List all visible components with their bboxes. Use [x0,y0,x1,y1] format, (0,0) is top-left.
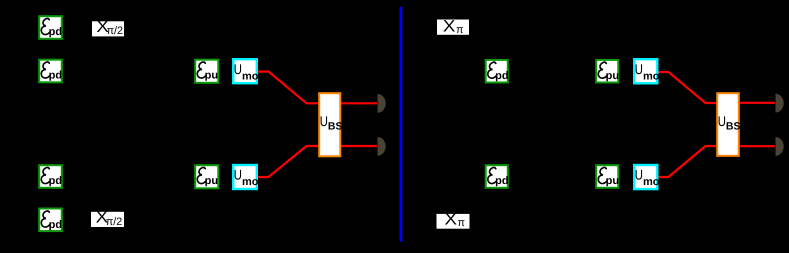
svg-text:U: U [234,167,242,183]
svg-text:pd: pd [49,219,62,231]
svg-text:BS: BS [726,121,741,133]
svg-text:U: U [320,113,328,129]
svg-text:pd: pd [49,70,62,82]
svg-text:U: U [718,113,726,129]
beamsplitter U_BS (right) [717,93,740,156]
wire U_mo to U_BS (left, top arm) [258,72,318,104]
svg-text:X: X [443,17,456,35]
svg-text:mo: mo [242,70,259,82]
detector (left, top) [378,94,386,113]
svg-text:BS: BS [328,121,343,133]
gate E_pd (left, row 2) [39,60,62,83]
svg-text:U: U [234,61,242,77]
detector (left, bottom) [378,137,386,156]
modulator U_mo (left, row 3) [233,165,259,189]
wire U_BS to detector (right, bottom output) [740,145,775,147]
svg-text:pd: pd [495,175,508,187]
wire U_mo to U_BS (right, bottom arm) [659,146,717,177]
svg-text:π: π [456,24,463,36]
gate E_pd (left, row 4) [39,209,62,232]
svg-text:pd: pd [49,175,62,187]
modulator U_mo (right, row 2) [634,59,660,83]
svg-text:mo: mo [643,176,660,188]
separator line (blue) [399,8,402,241]
gate E_pd (right, row 2) [486,60,509,83]
gate E_pd (left, row 3) [39,165,62,188]
svg-text:pu: pu [205,70,218,82]
wire U_BS to detector (left, bottom output) [342,145,378,147]
wire U_BS to detector (left, top output) [342,102,378,104]
svg-text:pd: pd [495,70,508,82]
svg-text:pu: pu [606,70,619,82]
detector (right, bottom) [776,137,784,156]
svg-text:π/2: π/2 [107,25,123,37]
svg-text:pu: pu [606,175,619,187]
svg-text:mo: mo [242,176,259,188]
modulator U_mo (right, row 3) [634,165,660,189]
gate E_pd (left, row 1) [39,16,62,39]
svg-text:π/2: π/2 [106,216,122,228]
gate X_pi/2 (left, row 4) [91,209,124,228]
wire U_mo to U_BS (right, top arm) [659,72,717,103]
svg-text:U: U [635,167,643,183]
gate X_pi/2 (left, row 1) [92,18,124,37]
beamsplitter U_BS (left) [319,93,342,156]
svg-text:π: π [458,217,465,229]
svg-text:mo: mo [643,70,660,82]
svg-text:pd: pd [49,26,62,38]
gate E_pu (left, row 2) [195,60,218,83]
gate X_pi (right, row 1) [437,17,469,36]
gate E_pd (right, row 3) [486,165,509,188]
wire U_BS to detector (right, top output) [740,102,775,104]
gate E_pu (right, row 3) [596,165,619,188]
detector (right, top) [776,94,784,113]
wire U_mo to U_BS (left, bottom arm) [258,146,318,177]
svg-text:U: U [635,61,643,77]
gate E_pu (left, row 3) [195,165,218,188]
gate X_pi (right, row 4) [437,210,470,229]
modulator U_mo (left, row 2) [233,59,259,83]
svg-text:pu: pu [205,175,218,187]
gate E_pu (right, row 2) [596,60,619,83]
svg-text:X: X [445,210,458,228]
